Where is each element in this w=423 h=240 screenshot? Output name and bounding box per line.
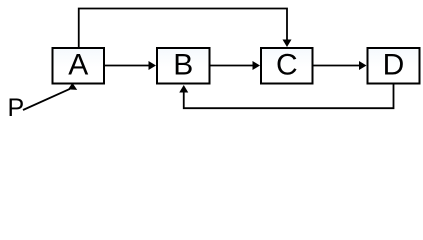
svg-text:B: B <box>173 49 193 82</box>
svg-text:P: P <box>8 94 25 122</box>
svg-text:D: D <box>383 49 405 82</box>
svg-text:C: C <box>276 49 298 82</box>
svg-text:A: A <box>68 49 88 82</box>
